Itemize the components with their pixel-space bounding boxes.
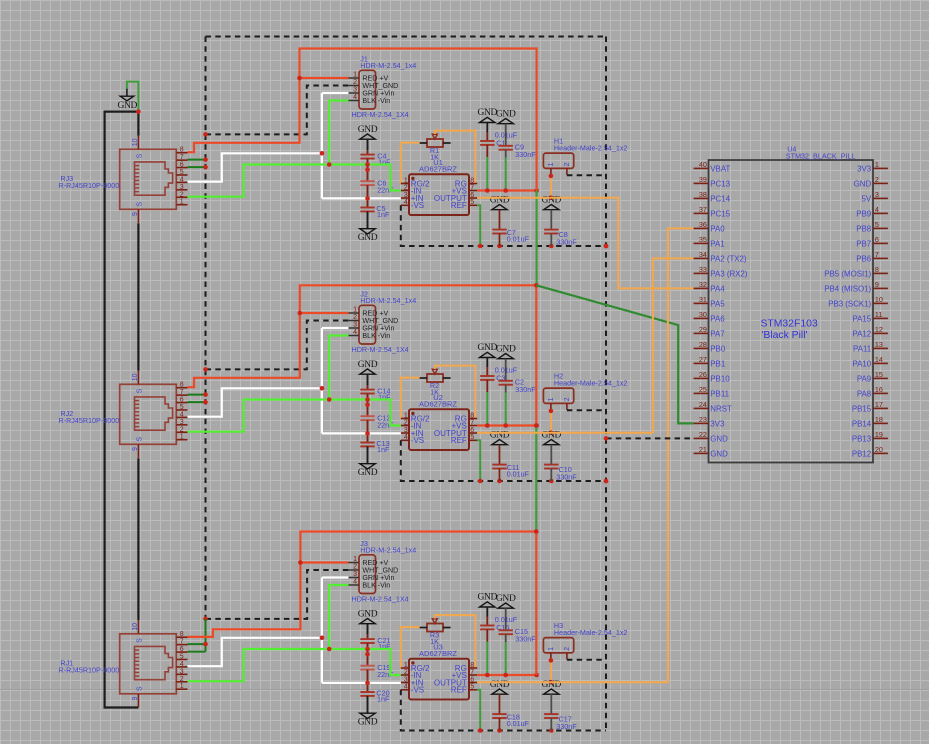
svg-text:32: 32 (699, 280, 707, 289)
capacitor C13 1nF (360, 439, 390, 454)
svg-text:7: 7 (470, 419, 474, 426)
svg-text:BLK -Vin: BLK -Vin (362, 97, 390, 105)
wire green 3V3 diagonal to U4 pin23 (536, 285, 693, 423)
svg-text:PB1: PB1 (710, 359, 725, 368)
svg-text:10: 10 (132, 373, 139, 381)
wire green U1 REF to GND bus (477, 205, 480, 246)
svg-text:2: 2 (564, 162, 571, 166)
wire white RJ pin4 to J2 pin3 and U2 pin3 (188, 328, 401, 433)
svg-text:10: 10 (132, 623, 139, 631)
capacitor C2 330nF (499, 359, 537, 395)
wire lead C19-C20 (367, 670, 369, 692)
wire green RJ pin2 to J2 pin4 and U2 pin2 (188, 336, 401, 432)
wire red +V rail block1 (188, 49, 537, 191)
svg-text:5: 5 (470, 434, 474, 441)
svg-text:19: 19 (875, 430, 883, 439)
svg-text:Header-Male-2.54_1x2: Header-Male-2.54_1x2 (554, 143, 628, 152)
capacitor C8 330nF (544, 210, 577, 247)
wire shield RJ3-RJ2 (137, 223, 139, 371)
svg-text:GND: GND (478, 108, 498, 118)
junction power chain (534, 283, 539, 534)
svg-text:GND: GND (118, 101, 138, 111)
svg-text:3: 3 (875, 190, 879, 199)
svg-text:-VS: -VS (411, 686, 424, 695)
junction white net (320, 151, 370, 201)
svg-text:11: 11 (875, 310, 882, 319)
svg-text:1: 1 (875, 160, 879, 169)
svg-text:8: 8 (875, 265, 879, 274)
svg-text:2: 2 (875, 175, 879, 184)
svg-text:13: 13 (875, 340, 883, 349)
wire green C3 to +VS (486, 392, 488, 426)
svg-text:2: 2 (353, 314, 357, 321)
svg-text:1: 1 (180, 199, 184, 206)
connector H2 Header-Male-2.54_1x2 (543, 372, 627, 411)
junction GND bus tap J2 (203, 367, 208, 372)
svg-text:16: 16 (875, 385, 883, 394)
svg-text:NRST: NRST (710, 404, 732, 413)
svg-text:10: 10 (132, 138, 139, 146)
ground GND above C18 (490, 680, 510, 694)
wire dark-green RJ1 pins 6-7 to GND bus end (188, 619, 206, 652)
svg-text:40: 40 (699, 160, 707, 169)
svg-text:4: 4 (404, 684, 408, 691)
svg-text:330nF: 330nF (556, 472, 577, 481)
svg-text:7: 7 (875, 250, 879, 259)
svg-text:1nF: 1nF (377, 445, 390, 454)
capacitor C21 1nF (360, 636, 391, 651)
svg-text:PA3 (RX2): PA3 (RX2) (710, 269, 747, 278)
svg-text:PA0: PA0 (710, 224, 725, 233)
junction shield-GND (136, 109, 141, 114)
capacitor C12 22nF (360, 414, 394, 430)
svg-text:PA10: PA10 (852, 359, 871, 368)
svg-text:30: 30 (699, 310, 707, 319)
junction H1 pin1 (549, 174, 554, 200)
wire red +VS net U2 (477, 424, 536, 426)
svg-text:17: 17 (875, 400, 883, 409)
capacitor C4 1nF (360, 151, 391, 166)
svg-text:GND: GND (358, 125, 378, 135)
svg-text:4: 4 (353, 329, 357, 336)
svg-text:S: S (137, 437, 144, 442)
svg-text:4: 4 (875, 205, 879, 214)
svg-text:'Black Pill': 'Black Pill' (761, 330, 807, 341)
svg-text:-VS: -VS (411, 436, 424, 445)
svg-text:PC13: PC13 (710, 179, 730, 188)
wire orange R1 left to U1 pin1 (401, 143, 420, 184)
svg-text:15: 15 (875, 370, 883, 379)
svg-text:8: 8 (180, 631, 184, 638)
svg-text:PB13: PB13 (852, 434, 872, 443)
svg-text:1: 1 (353, 72, 357, 79)
svg-text:PA5: PA5 (710, 299, 725, 308)
svg-text:6: 6 (875, 235, 879, 244)
svg-text:PB10: PB10 (710, 374, 730, 383)
svg-text:18: 18 (875, 415, 883, 424)
svg-text:23: 23 (699, 415, 707, 424)
ground GND above C9 (496, 109, 516, 123)
svg-text:27: 27 (699, 355, 707, 364)
capacitor C6 22nF (360, 179, 394, 195)
wire orange OUTPUT1 to U4 PA4 (477, 198, 693, 289)
svg-text:330nF: 330nF (556, 237, 577, 246)
svg-text:2: 2 (353, 79, 357, 86)
wire GND bus dashed right vertical (605, 37, 607, 731)
connector H3 Header-Male-2.54_1x2 (543, 621, 627, 660)
ground GND below C13 (358, 464, 378, 478)
junction H2 pin1 (549, 409, 554, 435)
wire green C1 to +VS (486, 157, 488, 191)
svg-text:3: 3 (180, 668, 184, 675)
junction GND bus row U1 (478, 244, 608, 249)
svg-text:3V3: 3V3 (710, 419, 725, 428)
wire lead C12-C13 (367, 420, 369, 442)
ground GND above C4 (358, 125, 378, 139)
svg-text:12: 12 (875, 325, 883, 334)
svg-text:PB14: PB14 (852, 419, 872, 428)
svg-text:4: 4 (404, 199, 408, 206)
svg-text:5: 5 (180, 653, 184, 660)
svg-text:4: 4 (180, 411, 184, 418)
svg-text:2: 2 (564, 647, 571, 651)
wire green U3 REF to GND bus (477, 690, 480, 731)
svg-text:3: 3 (353, 571, 357, 578)
wire green U2 REF to GND bus (477, 440, 480, 481)
svg-text:S: S (137, 638, 144, 643)
svg-text:PA4: PA4 (710, 284, 725, 293)
svg-text:6: 6 (180, 646, 184, 653)
IC U4 STM32_BLACK_PILL body and pins (694, 144, 888, 462)
ground GND above C2 (496, 344, 516, 358)
capacitor C1 0.01uF (480, 123, 518, 158)
svg-text:8: 8 (470, 412, 474, 419)
op-amp U2 AD627BRZ (401, 393, 477, 450)
wire lead C20-GND (367, 696, 369, 713)
resistor R3 1K (420, 615, 451, 646)
svg-text:330nF: 330nF (515, 150, 536, 159)
svg-text:3: 3 (404, 192, 408, 199)
svg-text:26: 26 (699, 370, 707, 379)
svg-text:1: 1 (180, 434, 184, 441)
svg-text:REF: REF (451, 436, 467, 445)
svg-text:31: 31 (699, 295, 707, 304)
svg-text:GND: GND (710, 449, 728, 458)
svg-text:PB6: PB6 (856, 254, 872, 263)
svg-text:BLK -Vin: BLK -Vin (362, 582, 390, 590)
svg-text:2: 2 (564, 397, 571, 401)
svg-text:3: 3 (353, 322, 357, 329)
ground GND above C16 (478, 593, 498, 607)
connector RJ3 R-RJ45R10P-8000 (59, 136, 188, 223)
svg-text:24: 24 (699, 400, 707, 409)
svg-text:7: 7 (180, 639, 184, 646)
svg-text:PB12: PB12 (852, 449, 871, 458)
wire green +VS1 down to rail2 (535, 191, 537, 286)
wire orange H1 pin1 to OUTPUT (550, 176, 552, 198)
wire green RJ pin2 to J3 pin4 and U3 pin2 (188, 585, 401, 681)
svg-text:2: 2 (180, 676, 184, 683)
svg-text:HDR-M-2.54_1X4: HDR-M-2.54_1X4 (352, 594, 409, 603)
wire lead C14-C12 (367, 394, 369, 417)
svg-text:GND: GND (358, 360, 378, 370)
wire red +V rail block3 (188, 532, 537, 637)
svg-text:0.01uF: 0.01uF (507, 235, 530, 244)
wire lead GND-C4 (367, 139, 369, 154)
ground GND top-left (118, 89, 138, 111)
svg-text:S: S (137, 388, 144, 393)
junction white net (320, 636, 370, 686)
wire green C15 to +VS (505, 642, 507, 675)
junction red J3 pin1 (298, 560, 303, 565)
wire shield RJ2-RJ1 (137, 458, 139, 620)
wire shield vertical RJ3-top (137, 112, 139, 136)
svg-text:PA7: PA7 (710, 329, 724, 338)
svg-text:STM32_BLACK_PILL: STM32_BLACK_PILL (786, 151, 856, 160)
svg-text:GND: GND (854, 179, 872, 188)
svg-text:4: 4 (353, 94, 357, 101)
svg-text:GND: GND (358, 718, 378, 728)
ground GND above C7 (490, 195, 510, 209)
svg-text:5V: 5V (862, 194, 872, 203)
wire green C16 to +VS (486, 642, 488, 676)
junction GND bus row U3 (478, 728, 554, 733)
svg-text:5: 5 (470, 199, 474, 206)
svg-text:5: 5 (875, 220, 879, 229)
svg-text:PA1: PA1 (710, 239, 724, 248)
junction RJ1 pin7 on GND bus (203, 642, 208, 647)
wire red +VS net U3 (477, 674, 536, 676)
svg-text:9: 9 (132, 447, 139, 451)
wire dashed GND bus to J2 pin2 (206, 321, 349, 370)
capacitor C18 0.01uF (492, 694, 529, 730)
svg-text:6: 6 (470, 676, 474, 683)
svg-text:R-RJ45R10P-8000: R-RJ45R10P-8000 (59, 416, 120, 425)
svg-text:S: S (137, 686, 144, 691)
svg-text:PC15: PC15 (710, 209, 730, 218)
svg-text:28: 28 (699, 340, 707, 349)
wire dashed H2 pin2 to GND bus (567, 409, 606, 411)
wire lead C13-GND (367, 446, 369, 463)
svg-text:R-RJ45R10P-8000: R-RJ45R10P-8000 (59, 181, 120, 190)
junction U1 +VS taps (485, 188, 539, 193)
wire dark-green RJ pin7 to GND bus (188, 159, 206, 161)
svg-text:8: 8 (470, 177, 474, 184)
svg-text:PC14: PC14 (710, 194, 730, 203)
junction GND bus row U2 (478, 479, 608, 484)
capacitor C15 330nF (499, 608, 537, 644)
wire lead C6-C5 (367, 185, 369, 207)
svg-text:PA2 (TX2): PA2 (TX2) (710, 254, 747, 263)
svg-text:PB7: PB7 (856, 239, 871, 248)
junction green net (327, 162, 370, 172)
svg-text:21: 21 (699, 445, 707, 454)
svg-text:5: 5 (180, 404, 184, 411)
capacitor C7 0.01uF (492, 210, 529, 246)
ground GND above C11 (490, 430, 510, 444)
svg-text:0.01uF: 0.01uF (507, 719, 530, 728)
capacitor C14 1nF (360, 386, 391, 401)
svg-text:PA11: PA11 (853, 344, 871, 353)
svg-text:PB11: PB11 (710, 389, 729, 398)
svg-text:0.01uF: 0.01uF (507, 470, 530, 479)
svg-text:39: 39 (699, 175, 707, 184)
svg-text:8: 8 (470, 662, 474, 669)
junction H3 pin1 (549, 658, 554, 684)
svg-text:33: 33 (699, 265, 707, 274)
svg-text:5: 5 (470, 684, 474, 691)
svg-text:3: 3 (353, 87, 357, 94)
capacitor C3 0.01uF (480, 358, 518, 393)
svg-text:PA12: PA12 (852, 329, 871, 338)
svg-text:HDR-M-2.54_1x4: HDR-M-2.54_1x4 (360, 61, 416, 70)
connector RJ1 R-RJ45R10P-8000 (59, 620, 188, 707)
wire green C2 to +VS (505, 393, 507, 426)
svg-text:22: 22 (699, 430, 707, 439)
wire white RJ pin4 to J3 pin3 and U3 pin3 (188, 578, 401, 683)
svg-text:HDR-M-2.54_1x4: HDR-M-2.54_1x4 (360, 545, 416, 554)
ground GND above C8 (542, 195, 562, 209)
svg-text:PB4 (MISO1): PB4 (MISO1) (824, 284, 871, 293)
svg-text:-VS: -VS (411, 201, 424, 210)
svg-text:1: 1 (548, 647, 555, 651)
svg-text:34: 34 (699, 250, 707, 259)
wire white RJ pin4 to J1 pin3 and U1 pin3 (188, 93, 401, 198)
ground GND above C1 (478, 108, 498, 122)
op-amp U3 AD627BRZ (401, 642, 477, 699)
connector J2 HDR-M-2.54_1x4 (349, 289, 417, 354)
wire orange H2 pin1 to OUTPUT (550, 411, 552, 433)
svg-text:REF: REF (451, 686, 467, 695)
capacitor C11 0.01uF (492, 445, 529, 481)
svg-text:VBAT: VBAT (710, 164, 730, 173)
svg-text:5: 5 (180, 169, 184, 176)
svg-text:8: 8 (180, 382, 184, 389)
wire dashed U3 -VS to GND bus (401, 690, 606, 731)
svg-text:3: 3 (180, 184, 184, 191)
svg-text:PA15: PA15 (852, 314, 871, 323)
svg-text:35: 35 (699, 235, 707, 244)
svg-text:1: 1 (404, 177, 408, 184)
wire dashed H3 pin2 to GND bus (567, 659, 606, 661)
svg-text:1: 1 (548, 397, 555, 401)
ground GND above C14 (358, 360, 378, 374)
svg-text:2: 2 (404, 669, 408, 676)
svg-text:4: 4 (180, 176, 184, 183)
capacitor C17 330nF (544, 694, 577, 731)
wire shield-loop black left (105, 112, 139, 708)
wire red rail2 down to +VS2 (535, 285, 537, 425)
svg-text:GND: GND (358, 468, 378, 478)
op-amp U1 AD627BRZ (401, 158, 477, 215)
svg-text:29: 29 (699, 325, 707, 334)
svg-text:PA6: PA6 (710, 314, 725, 323)
wire green RJ pin2 to J1 pin4 and U1 pin2 (188, 101, 401, 197)
svg-text:GND: GND (496, 344, 516, 354)
wire lead GND-C21 (367, 624, 369, 639)
svg-text:REF: REF (451, 201, 467, 210)
ground GND above C10 (542, 430, 562, 444)
wire orange H3 pin1 to OUTPUT (550, 660, 552, 682)
svg-text:1: 1 (353, 556, 357, 563)
junction U3 +VS taps (485, 673, 539, 678)
ground GND above C21 (358, 609, 378, 623)
svg-text:PB0: PB0 (710, 344, 726, 353)
wire dashed U1 -VS to GND bus (401, 205, 606, 246)
junction green net (327, 647, 370, 657)
svg-text:3: 3 (404, 427, 408, 434)
wire dashed GND bus to J1 pin2 (206, 86, 349, 135)
wire red rail3 down to +VS3 (535, 532, 537, 676)
wire GND bus dashed top rail (206, 36, 607, 38)
connector RJ2 R-RJ45R10P-8000 (59, 371, 188, 458)
svg-text:GND: GND (478, 593, 498, 603)
wire orange R3 left to U3 pin1 (401, 627, 420, 668)
svg-text:GND: GND (478, 343, 498, 353)
svg-text:AD627BRZ: AD627BRZ (419, 399, 457, 408)
svg-text:37: 37 (699, 205, 707, 214)
svg-text:14: 14 (875, 355, 883, 364)
svg-text:PB15: PB15 (852, 404, 872, 413)
capacitor C20 1nF (360, 689, 390, 704)
wire lead C4-C6 (367, 159, 369, 182)
svg-text:3V3: 3V3 (857, 164, 872, 173)
svg-text:2: 2 (404, 184, 408, 191)
capacitor C10 330nF (544, 445, 577, 482)
wire orange R2 left to U2 pin1 (401, 378, 420, 419)
wire red +VS net U1 (477, 189, 536, 191)
svg-text:6: 6 (180, 162, 184, 169)
svg-text:9: 9 (132, 697, 139, 701)
svg-text:10: 10 (875, 295, 883, 304)
svg-text:HDR-M-2.54_1x4: HDR-M-2.54_1x4 (360, 296, 416, 305)
svg-text:S: S (137, 202, 144, 207)
svg-text:Header-Male-2.54_1x2: Header-Male-2.54_1x2 (554, 628, 628, 637)
wire green C9 to +VS (505, 158, 507, 191)
wire lead GND-C14 (367, 374, 369, 389)
svg-text:2: 2 (353, 564, 357, 571)
svg-text:6: 6 (470, 427, 474, 434)
svg-text:GND: GND (496, 594, 516, 604)
ground GND below C20 (358, 713, 378, 727)
resistor R1 1K (420, 131, 451, 162)
junction U2 +VS taps (485, 423, 539, 428)
junction white net (320, 386, 370, 436)
resistor R2 1K (420, 366, 451, 397)
svg-text:20: 20 (875, 445, 883, 454)
wire GND bus dashed left vertical (205, 37, 207, 619)
capacitor C16 0.01uF (480, 607, 518, 642)
wire dark-green RJ pin7 to GND bus (188, 394, 206, 396)
wire green +VS2 down to rail3 (535, 426, 537, 532)
svg-text:STM32F103: STM32F103 (761, 319, 818, 330)
svg-text:PA9: PA9 (857, 374, 872, 383)
wire lead C5-GND (367, 211, 369, 228)
svg-text:GND: GND (358, 233, 378, 243)
svg-text:1nF: 1nF (377, 694, 390, 703)
wire dark-green RJ pin6 to GND bus (188, 401, 206, 403)
svg-text:1: 1 (404, 412, 408, 419)
svg-text:2: 2 (180, 426, 184, 433)
svg-text:S: S (137, 153, 144, 158)
wire orange R2 top to U2 pin8 (435, 366, 476, 419)
wire orange R3 top to U3 pin8 (435, 615, 476, 668)
svg-text:8: 8 (180, 147, 184, 154)
wire dashed GND bus to U4 pin22 (606, 437, 694, 439)
svg-text:330nF: 330nF (515, 635, 536, 644)
svg-text:25: 25 (699, 385, 707, 394)
svg-text:PB5 (MOSI1): PB5 (MOSI1) (824, 269, 871, 278)
